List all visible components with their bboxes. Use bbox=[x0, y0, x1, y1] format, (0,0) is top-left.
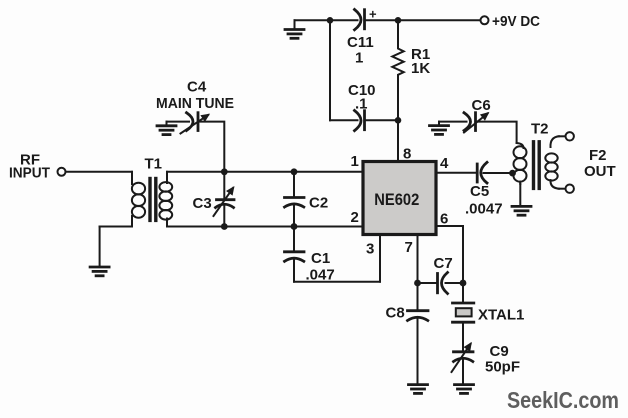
capacitor C5 plates bbox=[476, 164, 479, 182]
variable capacitor C3 arrow bbox=[214, 188, 234, 216]
wire: C6 to T2 primary top bbox=[476, 122, 516, 143]
wire: junction to C7 bbox=[418, 282, 437, 284]
svg-text:1: 1 bbox=[355, 50, 363, 67]
svg-text:SeekIC.com: SeekIC.com bbox=[507, 387, 619, 413]
svg-text:C5: C5 bbox=[470, 183, 489, 200]
wire: pin 3 vertical bbox=[379, 235, 381, 282]
svg-text:2: 2 bbox=[351, 209, 359, 226]
svg-text:C11: C11 bbox=[347, 34, 374, 51]
transformer T1 primary winding bbox=[131, 172, 133, 184]
wire: pin 4 lead to C5 bbox=[436, 172, 477, 174]
capacitor C2 bbox=[293, 172, 295, 197]
svg-text:3: 3 bbox=[366, 241, 374, 258]
svg-text:.0047: .0047 bbox=[465, 201, 503, 218]
variable capacitor C6 plates bbox=[464, 113, 471, 131]
wire: T2 primary bottom to ground bbox=[519, 184, 521, 206]
transformer T2 core bbox=[532, 142, 535, 189]
terminal +9V DC bbox=[481, 16, 489, 24]
wire: C1 bottom to pin 3 bbox=[294, 281, 380, 283]
svg-text:NE602: NE602 bbox=[374, 190, 419, 209]
svg-text:C2: C2 bbox=[309, 195, 328, 212]
svg-text:1K: 1K bbox=[411, 60, 430, 77]
wire: pin 8 vertical to IC bbox=[397, 120, 399, 161]
svg-text:.047: .047 bbox=[306, 267, 335, 284]
capacitor C8 bbox=[417, 283, 419, 310]
junction: C2 top bbox=[291, 168, 298, 175]
svg-text:T2: T2 bbox=[531, 121, 549, 138]
junction: pin7/C7/C8 bbox=[414, 280, 421, 287]
wire: tank top rail (T1 to pin 1) bbox=[167, 171, 363, 173]
wire: pin 7 vertical bbox=[417, 235, 419, 283]
transformer T2 primary winding bbox=[517, 143, 524, 148]
variable capacitor C9 plates bbox=[454, 350, 474, 353]
ground G2 (T1 primary) bbox=[90, 267, 109, 276]
wire: C7 to crystal branch bbox=[446, 282, 464, 284]
capacitor C1 bbox=[293, 227, 295, 252]
svg-text:MAIN TUNE: MAIN TUNE bbox=[156, 95, 234, 112]
svg-text:C6: C6 bbox=[472, 97, 491, 114]
svg-text:C7: C7 bbox=[434, 255, 453, 272]
svg-text:XTAL1: XTAL1 bbox=[478, 307, 524, 324]
wire: ground to C6 bbox=[439, 121, 467, 123]
variable capacitor C4 arrow bbox=[181, 115, 209, 134]
wire: left vertical of C11/C10 loop bbox=[329, 20, 331, 120]
junction: C3 top bbox=[221, 168, 228, 175]
junction: top rail / R1 bbox=[395, 17, 402, 24]
transformer T2 secondary winding bbox=[550, 136, 559, 147]
capacitor C10 plates bbox=[355, 111, 362, 131]
wire: T1 primary return to ground bbox=[99, 227, 101, 267]
ground G1 (top left, supply bypass) bbox=[294, 20, 296, 29]
svg-text:+9V DC: +9V DC bbox=[492, 13, 540, 30]
wire: C5 to T2 tap bbox=[484, 172, 513, 174]
crystal XTAL1 bbox=[462, 283, 464, 303]
svg-text:C9: C9 bbox=[490, 343, 509, 360]
transformer T1 secondary winding bbox=[166, 172, 168, 183]
wire: secondary to output terminals bbox=[559, 135, 566, 137]
terminal RF INPUT bbox=[58, 168, 66, 176]
ground G4 (C8) bbox=[409, 385, 428, 394]
variable capacitor C9 arrow bbox=[452, 344, 471, 372]
variable capacitor C4 plates bbox=[187, 113, 194, 131]
junction: C3 bottom bbox=[221, 223, 228, 230]
ground G5 (C9) bbox=[455, 385, 474, 394]
variable capacitor C3 plates bbox=[223, 172, 225, 199]
svg-text:OUT: OUT bbox=[584, 163, 616, 180]
svg-text:C3: C3 bbox=[193, 195, 212, 212]
svg-text:1: 1 bbox=[351, 153, 359, 170]
transformer T1 core bbox=[148, 179, 151, 221]
capacitor C11 (polarized, plates) bbox=[355, 10, 362, 30]
svg-text:6: 6 bbox=[440, 211, 448, 228]
svg-text:C1: C1 bbox=[311, 250, 330, 267]
svg-text:C8: C8 bbox=[386, 305, 405, 322]
junction: C10 / R1 bottom bbox=[395, 117, 402, 124]
ground G6 (C6) bbox=[438, 122, 440, 126]
junction: C7/XTAL bbox=[460, 280, 467, 287]
junction: top rail / left loop bbox=[327, 17, 334, 24]
wire: C11 to +9V terminal bbox=[366, 19, 481, 21]
svg-text:7: 7 bbox=[405, 239, 413, 256]
variable capacitor C6 arrow bbox=[464, 114, 488, 133]
svg-text:+: + bbox=[369, 7, 377, 22]
wire: top rail from ground to C11 bbox=[295, 19, 358, 21]
svg-text:8: 8 bbox=[403, 146, 411, 163]
wire: pin 6 to crystal branch bbox=[436, 226, 463, 283]
ground G3 (C4 main tune) bbox=[166, 122, 168, 126]
junction: C2 bottom bbox=[291, 223, 298, 230]
svg-text:4: 4 bbox=[440, 155, 449, 172]
op-amp U1 NE602 mixer IC body bbox=[363, 162, 436, 235]
svg-text:T1: T1 bbox=[145, 156, 163, 173]
svg-text:INPUT: INPUT bbox=[9, 165, 50, 182]
wire: C10 right lead bbox=[366, 119, 399, 121]
capacitor C7 plates bbox=[436, 274, 439, 293]
terminal F2 OUT bottom bbox=[566, 185, 574, 193]
svg-text:C4: C4 bbox=[187, 79, 207, 96]
wire: tank bottom rail (T1 to pin 2) bbox=[167, 226, 363, 228]
resistor R1 (zigzag) bbox=[392, 20, 403, 120]
junction: T2 primary tap bbox=[509, 170, 516, 177]
svg-text:50pF: 50pF bbox=[485, 359, 520, 376]
terminal F2 OUT top bbox=[566, 132, 574, 140]
wire: C4 to corner and down to tank rail bbox=[199, 122, 225, 172]
svg-text:.1: .1 bbox=[355, 96, 368, 113]
wire: RF input to T1 primary bbox=[66, 171, 133, 173]
wire: ground to C4 bbox=[167, 121, 190, 123]
wire: C10 left lead bbox=[330, 119, 358, 121]
ground G7 (T2 primary) bbox=[512, 206, 531, 215]
svg-text:F2: F2 bbox=[589, 147, 607, 164]
